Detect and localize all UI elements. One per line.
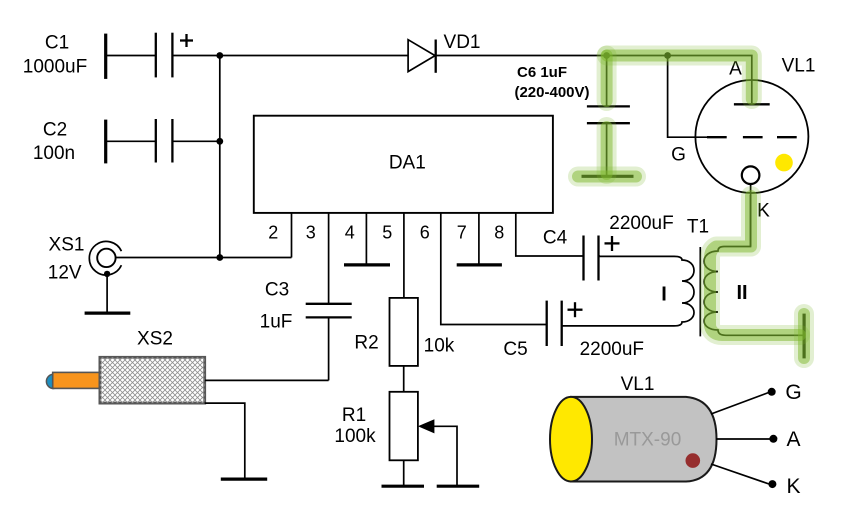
- svg-text:2200uF: 2200uF: [609, 213, 673, 234]
- node: grid-wire junction dot: [664, 52, 671, 59]
- svg-text:8: 8: [494, 223, 504, 243]
- VL1 photo lead K: [711, 464, 801, 498]
- ground (secondary, rotated bar): [802, 314, 805, 359]
- wire: diode cathode to VL1 anode corner: [436, 56, 752, 104]
- R1 wiper arrow: [418, 419, 457, 486]
- ground (below XS1): [85, 312, 131, 315]
- VL1 photo lead G: [711, 381, 802, 414]
- ground (below XS2): [221, 478, 267, 481]
- wire: cathode down to secondary: [750, 184, 752, 247]
- tube VL1 cathode: [742, 166, 770, 221]
- wire: R1 bottom to ground: [403, 460, 405, 486]
- wire: XS2 sleeve to ground: [205, 403, 245, 478]
- pin 7 wire: [478, 213, 480, 265]
- capacitor C1: [106, 33, 220, 78]
- node: C6 junction dot: [603, 52, 610, 59]
- capacitor C5: [503, 301, 644, 360]
- capacitor C2: [106, 119, 220, 163]
- svg-text:1000uF: 1000uF: [23, 57, 87, 78]
- svg-text:12V: 12V: [48, 263, 82, 284]
- C4 polarity plus: [605, 236, 620, 251]
- pin 3 wire: [328, 213, 330, 304]
- tube VL1 grid (dashes): [671, 137, 797, 165]
- svg-text:XS1: XS1: [49, 235, 85, 256]
- svg-text:5: 5: [382, 223, 392, 243]
- svg-text:R2: R2: [354, 333, 378, 354]
- svg-text:XS2: XS2: [137, 329, 173, 350]
- svg-text:MTX-90: MTX-90: [614, 430, 682, 451]
- tube VL1 indicator dot: [775, 154, 793, 172]
- wire: +12V rail vertical: [219, 56, 221, 258]
- svg-text:C6 1uF: C6 1uF: [517, 64, 567, 81]
- wire: XS2 tip to C3/pin3: [205, 379, 329, 381]
- ground (below R1): [382, 485, 425, 488]
- node: C1/C2/rail junction dots: [216, 52, 223, 261]
- svg-text:VL1: VL1: [782, 56, 816, 77]
- C1 polarity plus: [180, 34, 193, 47]
- svg-text:II: II: [736, 282, 747, 304]
- svg-text:G: G: [785, 381, 801, 404]
- ground (C1 left bar): [104, 34, 107, 79]
- svg-text:2: 2: [268, 223, 278, 243]
- pin 4 wire: [365, 213, 367, 265]
- svg-text:VD1: VD1: [444, 32, 481, 53]
- svg-text:T1: T1: [687, 217, 709, 238]
- svg-text:100k: 100k: [334, 426, 376, 447]
- wire: top rail from C1 node to diode: [220, 55, 408, 57]
- transformer T1 secondary winding II: [704, 195, 804, 335]
- diode VD1: [408, 32, 480, 73]
- svg-text:1uF: 1uF: [260, 312, 293, 333]
- transformer T1 primary winding I: [562, 256, 694, 326]
- svg-text:(220-400V): (220-400V): [514, 84, 589, 101]
- svg-text:K: K: [786, 475, 800, 498]
- svg-text:I: I: [661, 284, 667, 306]
- svg-text:C1: C1: [45, 33, 69, 54]
- svg-text:C5: C5: [503, 339, 527, 360]
- svg-text:A: A: [786, 428, 800, 451]
- C6 value label: [514, 64, 589, 101]
- capacitor C4: [543, 213, 674, 281]
- svg-text:G: G: [671, 145, 686, 166]
- svg-text:2200uF: 2200uF: [580, 339, 644, 360]
- svg-text:4: 4: [345, 223, 355, 243]
- resistor R2: [354, 298, 454, 366]
- capacitor C6: [587, 56, 630, 177]
- highlighted HV net: cathode to secondary winding II to ground (marker): [710, 196, 804, 358]
- connector XS2 (jack plug): [46, 329, 204, 404]
- svg-text:DA1: DA1: [389, 153, 426, 174]
- pin 6 wire: [441, 213, 547, 325]
- pin 5 wire: [403, 213, 405, 298]
- svg-text:7: 7: [457, 223, 467, 243]
- ground (C2 left bar): [104, 120, 107, 164]
- VL1 photo lead A: [716, 428, 801, 451]
- highlighted HV net: C6 branch down to ground (marker): [578, 56, 636, 177]
- svg-text:C2: C2: [43, 120, 67, 141]
- ground (R1 wiper): [437, 485, 480, 488]
- svg-text:10k: 10k: [424, 336, 455, 357]
- svg-text:C3: C3: [265, 280, 289, 301]
- C2 value label: [33, 120, 75, 165]
- svg-text:3: 3: [306, 223, 316, 243]
- pin 8 wire: [516, 213, 584, 256]
- ground (below C6): [582, 175, 634, 178]
- wire: XS1 shell to ground: [106, 274, 108, 313]
- transformer T1 core: [699, 247, 701, 336]
- svg-text:R1: R1: [342, 405, 366, 426]
- svg-text:100n: 100n: [33, 143, 75, 164]
- VL1 photo body (MTX-90 tube drawing): [550, 397, 717, 482]
- C1 value label: [23, 33, 87, 78]
- tube VL1 anode plate: [729, 59, 770, 105]
- C5 polarity plus: [568, 302, 583, 317]
- tube VL1 envelope: [695, 56, 815, 194]
- wire: R2 to R1: [403, 366, 405, 392]
- svg-text:VL1: VL1: [621, 374, 655, 395]
- IC DA1: [254, 116, 553, 213]
- capacitor C3: [260, 280, 352, 381]
- node: XS1 shell junction dot: [104, 271, 110, 277]
- wire: XS1 pin to pin 2: [116, 257, 292, 259]
- ground (pin 7-8 bar): [457, 263, 502, 266]
- pin 2 wire: [291, 213, 293, 258]
- ground (pin 4-5 bar): [344, 263, 390, 266]
- svg-text:6: 6: [420, 223, 430, 243]
- connector XS1: [48, 235, 122, 284]
- svg-text:C4: C4: [543, 228, 568, 249]
- wire: C4 to transformer primary: [599, 255, 601, 257]
- wire: grid net from junction to grid: [668, 56, 707, 138]
- resistor R1 (potentiometer): [334, 392, 418, 461]
- highlighted HV net: top rail from C6 node to VL1 anode (marker): [607, 56, 752, 100]
